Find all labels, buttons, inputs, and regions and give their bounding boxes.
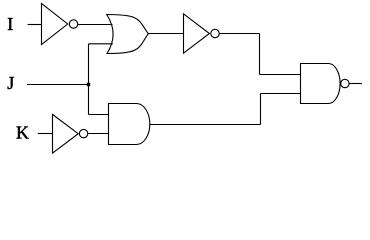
input label I	[7, 14, 13, 34]
inverter U1 triangle	[42, 4, 68, 45]
wire U4 output to AND lower input	[88, 133, 109, 135]
inverter U3 bubble	[211, 29, 219, 37]
wire vertical down to NAND top input	[259, 34, 261, 75]
wire NAND output	[350, 83, 363, 85]
wire J to junction	[27, 84, 89, 86]
AND gate U5	[109, 104, 150, 145]
wire junction to OR lower input	[89, 43, 113, 45]
NAND gate U6 body	[301, 64, 341, 104]
NAND gate U6 bubble	[341, 79, 349, 87]
wire OR output to inverter U3	[148, 33, 183, 35]
wire junction to AND top input	[89, 114, 110, 116]
OR gate U2	[107, 15, 149, 54]
input label J	[7, 73, 14, 93]
wire into NAND lower input	[261, 93, 302, 95]
wire U3 output horizontal	[220, 33, 260, 35]
inverter U4 triangle	[53, 114, 79, 153]
wire vertical up to NAND lower input	[260, 94, 262, 125]
input label K	[16, 122, 29, 142]
wire I to inverter	[28, 24, 42, 26]
wire junction vertical	[88, 44, 90, 115]
wire U1 output to OR gate	[78, 24, 112, 26]
inverter U1 bubble	[69, 20, 77, 28]
svg-text:I: I	[7, 14, 13, 34]
wire AND output horizontal	[150, 124, 261, 126]
inverter U4 bubble	[79, 129, 87, 137]
wire into NAND top input	[260, 74, 302, 76]
inverter U3 triangle	[184, 14, 210, 53]
svg-text:J: J	[7, 73, 14, 93]
wire K to inverter	[38, 133, 53, 135]
svg-text:K: K	[16, 122, 29, 142]
junction node on J line	[87, 83, 90, 86]
